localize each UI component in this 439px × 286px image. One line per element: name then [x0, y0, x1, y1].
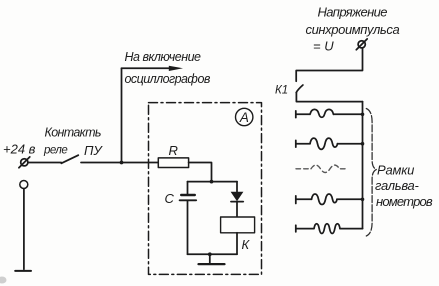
wire: K1 lower stub to right rail [296, 93, 362, 102]
label: Напряжение синхроимпульса = U [306, 5, 400, 54]
terminal +24V [19, 157, 30, 168]
node: top of RC branch [210, 180, 214, 184]
label: На включение осциллографов [125, 50, 211, 86]
capacitor C [180, 195, 197, 200]
svg-text:R: R [169, 143, 178, 158]
svg-text:нометров: нометров [376, 194, 433, 209]
wire: capacitor to bottom [187, 201, 189, 254]
label: Контакть реле ПУ [3, 126, 103, 159]
svg-text:ПУ: ПУ [84, 143, 103, 158]
wire: node horizontal [188, 181, 238, 183]
resistor R [158, 158, 188, 168]
svg-text:А: А [239, 110, 249, 125]
wire: diode to relay K [236, 202, 238, 217]
svg-text:К: К [242, 237, 251, 252]
wire: down to capacitor [187, 182, 189, 195]
wire: relay to bottom [236, 233, 238, 255]
svg-text:осциллографов: осциллографов [125, 72, 211, 86]
svg-text:синхроимпульса: синхроимпульса [306, 22, 400, 37]
relay coil K [221, 217, 255, 233]
node label A (circled) [236, 108, 253, 125]
scan smudge (bottom-left corner) [0, 277, 7, 284]
svg-text:= U: = U [313, 39, 334, 54]
wire: up from junction [121, 68, 123, 162]
switch K1 (open contact) [296, 85, 303, 93]
terminal (sync pulse input) [356, 39, 367, 50]
wire: terminal down and left to K1 [296, 48, 362, 81]
svg-text:реле: реле [43, 145, 67, 157]
galvanometer coil row 3 (dashed continuation) [296, 165, 347, 172]
galvanometer coil row 5 [296, 224, 363, 234]
label: Рамки гальва- нометров [375, 163, 433, 210]
svg-text:гальва-: гальва- [375, 178, 419, 193]
svg-text:Рамки: Рамки [377, 163, 414, 178]
wire: right rail [362, 102, 364, 229]
wire: terminal to switch [28, 162, 61, 164]
diode [231, 192, 244, 202]
wire: down to diode [236, 182, 238, 192]
brace (frames of galvanometers) [366, 109, 376, 237]
svg-text:Контакть: Контакть [45, 126, 101, 140]
switch PU contact (open) [61, 155, 78, 163]
node: ground junction [208, 252, 212, 256]
node: junction of branch to oscillographs [120, 161, 124, 165]
dashed box A [149, 103, 262, 275]
arrow: to oscillographs [122, 67, 177, 69]
svg-text:Напряжение: Напряжение [318, 5, 388, 20]
svg-text:+24 в: +24 в [3, 142, 36, 157]
ground [199, 254, 225, 264]
wire: R to node [189, 163, 212, 182]
svg-text:На включение: На включение [125, 50, 202, 64]
wire: switch to resistor R [81, 162, 159, 164]
wire: bottom joining [188, 253, 238, 255]
galvanometer coil row 1 [296, 109, 365, 117]
terminal post (lower left) [15, 181, 31, 271]
galvanometer coil row 4 [296, 194, 365, 205]
svg-text:С: С [165, 191, 175, 206]
galvanometer coil row 2 [296, 138, 365, 149]
svg-text:К1: К1 [275, 85, 288, 97]
